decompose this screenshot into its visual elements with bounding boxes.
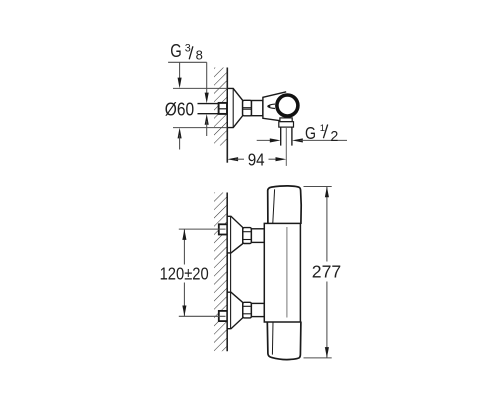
dimension 120±20 bbox=[182, 229, 186, 316]
valve cap circle bbox=[277, 95, 298, 116]
outlet pipe G1/2 bbox=[281, 127, 292, 146]
G1/2 dimension arrows bbox=[257, 138, 347, 142]
escutcheon cone (top view) bbox=[227, 88, 242, 127]
svg-text:Ø60: Ø60 bbox=[165, 100, 194, 120]
dimension 277 bbox=[325, 187, 329, 358]
valve housing bbox=[263, 92, 288, 121]
upper escutcheon cone bbox=[227, 216, 243, 253]
svg-text:120±20: 120±20 bbox=[160, 264, 209, 284]
outlet collar bbox=[279, 122, 294, 127]
svg-text:3: 3 bbox=[185, 43, 191, 55]
upper extension line (120 dim) bbox=[179, 228, 226, 230]
outlet centre line bbox=[285, 127, 287, 166]
label G 3/8 bbox=[170, 40, 203, 62]
lower union nut bbox=[243, 302, 252, 318]
supply pipe stub G3/8 bbox=[198, 104, 219, 114]
svg-text:2: 2 bbox=[330, 129, 338, 145]
lower extension line (120 dim) bbox=[179, 315, 226, 317]
upper shaft bbox=[251, 229, 264, 243]
Ø60 dimension arrows bbox=[178, 62, 182, 149]
svg-text:G: G bbox=[305, 123, 316, 143]
svg-text:G: G bbox=[170, 40, 182, 61]
277 extension lines bbox=[304, 186, 332, 188]
escutcheon cylinder edge line bbox=[230, 216, 232, 328]
label G 1/2 bbox=[305, 123, 338, 145]
lower escutcheon cone bbox=[227, 292, 243, 329]
wall line (top view) bbox=[226, 68, 228, 163]
lower shaft bbox=[251, 303, 264, 316]
wall line (bottom view) bbox=[226, 193, 228, 352]
top knob of mixer bbox=[268, 186, 302, 224]
lower hex fitting behind wall bbox=[219, 311, 227, 321]
dimension 94 bbox=[227, 157, 286, 161]
wall hatching (bottom view) bbox=[214, 193, 227, 352]
connecting shaft (top view) bbox=[252, 101, 263, 116]
Ø60 extension lines bbox=[173, 87, 227, 89]
union nut (top view) bbox=[243, 100, 252, 116]
upper hex fitting behind wall bbox=[219, 224, 227, 234]
hex fitting behind wall (top view) bbox=[219, 103, 227, 114]
G3/8 leader underline bbox=[168, 61, 207, 63]
outlet neck bbox=[280, 118, 292, 122]
body inner line bbox=[286, 227, 288, 318]
wall hatching (top view) bbox=[214, 68, 227, 146]
svg-text:8: 8 bbox=[196, 47, 203, 62]
svg-text:1: 1 bbox=[320, 123, 325, 134]
temperature pointer detail bbox=[267, 104, 275, 108]
svg-text:94: 94 bbox=[248, 150, 265, 170]
upper union nut bbox=[243, 228, 252, 244]
mixer body bbox=[264, 223, 300, 322]
bottom knob of mixer bbox=[267, 322, 301, 360]
G3/8 dimension arrows (pipe dia) bbox=[205, 62, 209, 136]
svg-text:277: 277 bbox=[312, 261, 341, 281]
